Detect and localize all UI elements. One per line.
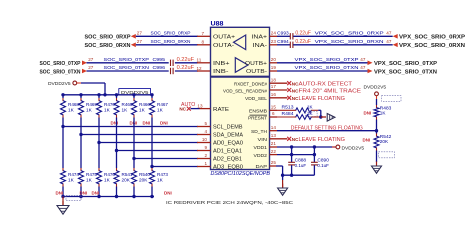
svg-text:0.22uF: 0.22uF — [295, 39, 311, 45]
port arrow VPX_SOC_SRIO_0TXP — [368, 61, 373, 66]
pin stub 25 DAP — [270, 160, 277, 166]
annotation LEAVE FLOATING (13) — [299, 137, 346, 143]
svg-text:VDD2: VDD2 — [254, 153, 268, 158]
svg-text:7: 7 — [202, 31, 205, 36]
wire VDD2 row — [277, 153, 316, 156]
wire AD1 to pin 9 — [117, 150, 199, 152]
svg-text:1K: 1K — [86, 177, 93, 182]
svg-text:1K: 1K — [68, 108, 75, 113]
pin number 47 (0RXN) — [386, 39, 392, 44]
svg-text:1K: 1K — [380, 110, 387, 115]
wire power to rail — [77, 83, 107, 97]
svg-text:DS80PCI102SQE/NOPB: DS80PCI102SQE/NOPB — [211, 171, 271, 177]
value 0.22uF (C994) — [295, 39, 311, 45]
amplifier A (left-pointing) — [234, 35, 246, 50]
wire AD0 to pin 10 — [99, 142, 198, 144]
svg-text:AUTO-RX DETECT: AUTO-RX DETECT — [299, 82, 353, 88]
svg-text:C993: C993 — [277, 30, 289, 36]
pin stub 21 — [270, 141, 278, 147]
svg-text:27: 27 — [88, 57, 94, 62]
wire R540 to gnd rail — [132, 187, 135, 199]
pin stub 18 — [270, 77, 288, 83]
annotation AUTO — [181, 102, 195, 108]
pin number 27 (0RXN) — [137, 39, 143, 44]
svg-text:8: 8 — [202, 40, 205, 45]
svg-text:OUTA+: OUTA+ — [213, 35, 236, 41]
svg-text:VIN: VIN — [258, 137, 268, 142]
svg-text:AD0_EQA0: AD0_EQA0 — [213, 141, 243, 147]
wire SOC_SRIO_0RXN — [136, 44, 198, 46]
wire R483 to R542 — [375, 120, 378, 134]
chip part number — [211, 171, 271, 177]
svg-text:VPX_SOC_SRIO_0TXP: VPX_SOC_SRIO_0TXP — [374, 61, 437, 67]
svg-text:LEAVE FLOATING: LEAVE FLOATING — [299, 96, 346, 102]
svg-text:VOD_SEL_READEN#: VOD_SEL_READEN# — [223, 88, 267, 93]
capacitor C888 — [288, 147, 306, 175]
wire C995 to pin 11 — [175, 62, 198, 64]
svg-text:1K: 1K — [86, 108, 93, 113]
svg-text:RATE: RATE — [213, 107, 230, 113]
svg-text:1K: 1K — [307, 111, 314, 116]
pin stub 20 — [270, 57, 278, 63]
wire SOC_SRIO_0TXP to C995 — [87, 62, 169, 64]
svg-text:C890: C890 — [317, 158, 329, 164]
svg-text:22: 22 — [271, 149, 277, 154]
svg-text:VPX_SOC_SRIO_0RXP: VPX_SOC_SRIO_0RXP — [315, 31, 384, 36]
port label VPX_SOC_SRIO_0TXP — [374, 61, 437, 67]
resistor R542 — [374, 134, 392, 151]
power DVDD2V5 (left) — [48, 81, 77, 87]
svg-text:6: 6 — [272, 111, 275, 116]
annotation AUTO-RX DETECT — [299, 82, 353, 88]
svg-text:0.1uF: 0.1uF — [295, 163, 307, 169]
pin number 27 (0TXP) — [88, 57, 94, 62]
svg-text:OUTB+: OUTB+ — [245, 61, 268, 67]
svg-text:0.22uF: 0.22uF — [295, 30, 311, 36]
svg-text:20K: 20K — [122, 177, 131, 182]
capacitor C890 — [311, 147, 329, 175]
port label VPX_SOC_SRIO_0RXP — [399, 35, 465, 41]
pin stub 19 — [270, 65, 278, 71]
port arrow SOC_SRIO_0TXN — [82, 69, 87, 74]
svg-text:DNI: DNI — [164, 191, 172, 196]
dni box (R483) — [382, 96, 402, 102]
svg-text:47: 47 — [360, 65, 366, 70]
svg-text:R484: R484 — [282, 111, 294, 116]
wire R513 to junction — [313, 110, 321, 117]
svg-text:SOC_SRIO_0TXN: SOC_SRIO_0TXN — [40, 69, 81, 75]
pin stub 5 — [197, 121, 211, 126]
svg-text:SDA_DEMA: SDA_DEMA — [213, 133, 244, 139]
no-connect pin 13 — [287, 137, 299, 142]
svg-text:0.1uF: 0.1uF — [317, 163, 329, 169]
svg-text:OUTA-: OUTA- — [213, 43, 234, 49]
net name SOC_SRIO_0RXN — [151, 39, 191, 44]
port label VPX_SOC_SRIO_0RXN — [399, 43, 465, 49]
svg-text:AD1_EQA1: AD1_EQA1 — [213, 149, 242, 155]
wire pin19 to port — [277, 70, 368, 72]
svg-text:1K: 1K — [307, 104, 314, 109]
capacitor C995 — [153, 57, 174, 66]
pin stub 7 — [197, 31, 211, 36]
resistor R474 — [61, 168, 80, 187]
svg-text:20: 20 — [271, 57, 277, 62]
svg-text:SOC_SRIO_0TXP: SOC_SRIO_0TXP — [104, 57, 150, 62]
pin stub 2 — [197, 153, 211, 158]
wire SD_TH to divider — [277, 130, 377, 132]
svg-text:SOC_SRIO_0RXP: SOC_SRIO_0RXP — [151, 31, 191, 36]
resistor R469 — [79, 93, 98, 117]
svg-text:C995: C995 — [153, 57, 166, 63]
svg-text:R466: R466 — [139, 102, 150, 107]
svg-text:1K: 1K — [122, 108, 129, 113]
pin stub 4 — [197, 129, 211, 134]
pin stub 13 — [270, 133, 288, 139]
svg-text:SOC_SRIO_0TXN: SOC_SRIO_0TXN — [104, 65, 150, 70]
svg-text:1K: 1K — [157, 108, 164, 113]
svg-text:VPX_SOC_SRIO_0RXN: VPX_SOC_SRIO_0RXN — [315, 39, 384, 44]
pin stub 12 — [197, 66, 211, 71]
no-connect RATE — [179, 107, 190, 112]
svg-text:0.22uF: 0.22uF — [177, 65, 195, 71]
svg-text:4: 4 — [204, 129, 207, 134]
annotation DEFAULT SETTING FLOATING — [291, 126, 363, 132]
port label SOC_SRIO_0TXP — [40, 61, 81, 67]
svg-text:15: 15 — [271, 105, 277, 110]
svg-text:20K: 20K — [139, 177, 148, 182]
annotation DNI (R542) — [363, 138, 371, 143]
svg-text:R467: R467 — [157, 102, 168, 107]
wire column AD1 vertical — [115, 118, 118, 169]
svg-text:VPX_SOC_SRIO_0RXN: VPX_SOC_SRIO_0RXN — [399, 43, 465, 49]
svg-text:1K: 1K — [104, 108, 111, 113]
svg-text:C888: C888 — [295, 158, 307, 164]
svg-text:19: 19 — [271, 65, 277, 70]
resistor R513 — [277, 104, 314, 112]
svg-text:VDD_SEL: VDD_SEL — [245, 96, 267, 101]
wire R475 to gnd rail — [79, 187, 82, 199]
svg-text:0.22uF: 0.22uF — [177, 57, 195, 63]
pin number 27 (0TXN) — [88, 65, 94, 70]
svg-text:SD_TH: SD_TH — [251, 129, 267, 134]
pin number 47 (0TXN) — [360, 65, 366, 70]
wire SOC_SRIO_0TXN to C996 — [87, 70, 169, 72]
svg-text:DNI: DNI — [364, 110, 372, 115]
wire SDA to pin 4 — [81, 134, 198, 136]
svg-text:RXDET_DONE#: RXDET_DONE# — [234, 81, 267, 86]
chip right pin names — [223, 35, 268, 169]
port arrow VPX_SOC_SRIO_0RXN — [393, 43, 398, 48]
svg-text:AD3_EQB0: AD3_EQB0 — [213, 164, 243, 170]
annotation DNI row (pulldowns) — [56, 191, 172, 201]
svg-text:25: 25 — [271, 160, 277, 165]
pin stub 8 — [197, 40, 211, 45]
svg-text:SOC_SRIO_0TXP: SOC_SRIO_0TXP — [40, 61, 81, 67]
resistor R465 — [114, 93, 133, 117]
svg-text:27: 27 — [137, 39, 143, 44]
svg-text:U88: U88 — [211, 21, 225, 27]
svg-text:14: 14 — [271, 125, 277, 130]
svg-text:11: 11 — [197, 58, 202, 63]
svg-text:DNI: DNI — [363, 138, 371, 143]
resistor R473 — [150, 168, 169, 187]
svg-text:10: 10 — [202, 137, 208, 142]
svg-text:SOC_SRIO_0RXN: SOC_SRIO_0RXN — [151, 39, 191, 44]
svg-text:24: 24 — [271, 30, 277, 35]
power DVDD2V5 (divider) — [364, 85, 387, 96]
wire R474 to gnd rail — [61, 187, 64, 199]
resistor R484 — [277, 111, 317, 119]
net name SOC_SRIO_0TXN — [104, 65, 150, 70]
value 0.22uF (C996) — [177, 65, 195, 71]
resistor R470 — [97, 93, 116, 117]
net name VPX_SOC_SRIO_0TXP — [295, 57, 359, 62]
port arrow SOC_SRIO_0RXP — [131, 34, 136, 39]
svg-text:13: 13 — [197, 103, 203, 108]
net box DVDD2V5 — [119, 89, 151, 95]
svg-text:DVDD2V5: DVDD2V5 — [342, 145, 365, 151]
svg-text:DVDD2V5: DVDD2V5 — [364, 85, 387, 91]
ground (VDD decoupling) — [278, 180, 288, 195]
annotation DNI (R483) — [364, 110, 372, 115]
wire pin24 to C993 — [277, 35, 290, 37]
no-connect pin 18 — [287, 81, 299, 86]
port label SOC_SRIO_0TXN — [40, 69, 81, 75]
svg-text:ENSMB: ENSMB — [249, 108, 267, 113]
wire AD3 to pin 1 — [152, 166, 198, 168]
svg-text:SCL_DEMB: SCL_DEMB — [213, 125, 243, 131]
svg-text:IC REDRIVER PCIE 2CH 24WQFN, -: IC REDRIVER PCIE 2CH 24WQFN, -40C~85C — [166, 200, 294, 206]
wire VDD rail — [277, 145, 336, 148]
net name VPX_SOC_SRIO_0TXN — [295, 65, 359, 70]
ground (pulldown bank) — [57, 197, 69, 215]
resistor R483 — [374, 105, 392, 120]
wire column AD2 vertical — [132, 118, 135, 169]
resistor R540 — [132, 168, 151, 187]
svg-text:PRESNT: PRESNT — [248, 115, 267, 120]
svg-text:R513: R513 — [282, 104, 294, 109]
svg-text:13: 13 — [271, 133, 277, 138]
pin stub 15 — [270, 105, 278, 111]
svg-text:1K: 1K — [157, 177, 164, 182]
svg-text:9: 9 — [204, 145, 207, 150]
svg-text:DNI: DNI — [143, 120, 151, 125]
wire column AD0 vertical — [97, 118, 100, 169]
amplifier B (right-pointing) — [235, 58, 248, 73]
pin stub 16 — [270, 92, 288, 98]
svg-text:VPX_SOC_SRIO_0RXP: VPX_SOC_SRIO_0RXP — [399, 35, 465, 41]
wire pullup rail — [63, 94, 152, 96]
svg-text:47: 47 — [360, 57, 366, 62]
wire C993 to port — [293, 35, 393, 37]
svg-text:FR4 20" 4MIL TRACE: FR4 20" 4MIL TRACE — [299, 88, 362, 94]
svg-text:NC: NC — [179, 107, 186, 112]
svg-text:DNI: DNI — [80, 191, 88, 196]
svg-text:DNI: DNI — [160, 120, 168, 125]
svg-text:VDD1: VDD1 — [254, 145, 268, 150]
svg-text:47: 47 — [386, 30, 392, 35]
resistor R468 — [61, 93, 80, 117]
svg-text:INB-: INB- — [213, 69, 229, 75]
svg-text:5: 5 — [204, 121, 207, 126]
no-connect pin 16 — [287, 96, 299, 101]
svg-text:SOC_SRIO_0RXN: SOC_SRIO_0RXN — [85, 43, 131, 49]
net name VPX_SOC_SRIO_0RXN — [315, 39, 384, 44]
svg-text:1K: 1K — [68, 177, 75, 182]
pin stub 22 — [270, 149, 278, 155]
ground (ENSMB/PRESNT) — [327, 114, 335, 122]
net name SOC_SRIO_0RXP — [151, 31, 191, 36]
port arrow VPX_SOC_SRIO_0RXP — [393, 34, 398, 39]
svg-text:AD2_EQB1: AD2_EQB1 — [213, 157, 242, 163]
chip section divider — [211, 76, 270, 78]
value 0.22uF (C995) — [177, 57, 195, 63]
no-connect pin 17 — [287, 88, 299, 93]
pin stub 23 — [270, 39, 278, 45]
svg-text:INA+: INA+ — [252, 35, 268, 41]
svg-text:OUTB-: OUTB- — [246, 69, 267, 75]
wire column SDA vertical — [79, 118, 82, 169]
port label SOC_SRIO_0RXN — [85, 43, 131, 49]
svg-text:20K: 20K — [380, 139, 389, 144]
svg-text:VPX_SOC_SRIO_0TXP: VPX_SOC_SRIO_0TXP — [295, 57, 359, 62]
svg-text:INB+: INB+ — [213, 61, 230, 67]
svg-text:LEAVE FLOATING: LEAVE FLOATING — [299, 137, 346, 143]
svg-text:C994: C994 — [277, 39, 289, 45]
svg-text:1: 1 — [204, 161, 207, 166]
svg-text:VPX_SOC_SRIO_0TXN: VPX_SOC_SRIO_0TXN — [374, 69, 437, 75]
svg-text:INA-: INA- — [253, 43, 268, 49]
net name VPX_SOC_SRIO_0RXP — [315, 31, 384, 36]
power DVDD2V5 (VDD rail) — [332, 145, 364, 151]
svg-text:27: 27 — [137, 30, 143, 35]
svg-text:18: 18 — [271, 77, 277, 82]
annotation DNI row (pullups) — [111, 120, 168, 125]
capacitor C996 — [153, 65, 174, 74]
net name SOC_SRIO_0TXP — [104, 57, 150, 62]
svg-text:27: 27 — [88, 65, 94, 70]
svg-text:DEFAULT SETTING FLOATING: DEFAULT SETTING FLOATING — [291, 126, 363, 132]
svg-text:1K: 1K — [139, 108, 146, 113]
pin number 27 (0RXP) — [137, 30, 143, 35]
port arrow VPX_SOC_SRIO_0TXN — [368, 69, 373, 74]
wire column AD3 vertical — [150, 118, 153, 169]
svg-text:DNI: DNI — [92, 191, 100, 196]
svg-text:DAP: DAP — [256, 164, 268, 169]
resistor R466 — [132, 93, 151, 117]
svg-text:R469: R469 — [86, 102, 97, 107]
pin stub 14 — [270, 125, 278, 131]
pin stub 17 — [270, 84, 288, 90]
pin number 47 (0TXP) — [360, 57, 366, 62]
chip left pin names — [213, 35, 244, 171]
ground (divider) — [372, 162, 382, 174]
wire SCL to pin 5 — [63, 126, 198, 128]
svg-text:1K: 1K — [104, 177, 111, 182]
resistor R467 — [150, 93, 169, 117]
pin stub 1 — [197, 161, 211, 166]
svg-text:21: 21 — [271, 141, 277, 146]
wire C994 to port — [293, 44, 393, 46]
dni box (R542) — [379, 152, 395, 158]
wire R476 to gnd rail — [97, 187, 100, 199]
svg-text:R468: R468 — [68, 102, 79, 107]
wire ground rail — [63, 196, 154, 198]
svg-text:2: 2 — [204, 153, 207, 158]
wire C996 to pin 12 — [175, 70, 198, 72]
svg-text:DVDD2V5: DVDD2V5 — [48, 81, 71, 87]
pin stub 9 — [197, 145, 211, 150]
annotation FR4 trace — [299, 88, 362, 94]
description text — [166, 200, 294, 206]
wire pin20 to port — [277, 62, 368, 64]
svg-text:12: 12 — [197, 66, 203, 71]
wire R542 down — [376, 151, 378, 163]
svg-text:VPX_SOC_SRIO_0TXN: VPX_SOC_SRIO_0TXN — [295, 65, 359, 70]
redriver U88 body — [211, 21, 270, 169]
pin stub 13 RATE — [197, 103, 210, 108]
pin stub 24 — [270, 30, 278, 36]
resistor R541 — [114, 168, 133, 187]
resistor R475 — [79, 168, 98, 187]
wire R473 to gnd rail — [150, 187, 153, 199]
svg-text:16: 16 — [271, 92, 277, 97]
pin stub 6 — [270, 111, 278, 117]
port label VPX_SOC_SRIO_0TXN — [374, 69, 437, 75]
svg-text:23: 23 — [271, 39, 277, 44]
port arrow SOC_SRIO_0RXN — [131, 43, 136, 48]
wire R541 to gnd rail — [115, 187, 118, 199]
wire RATE stub — [191, 108, 200, 110]
wire column SCL vertical — [61, 118, 64, 169]
port label SOC_SRIO_0RXP — [85, 35, 131, 41]
svg-text:DNI: DNI — [56, 191, 64, 196]
wire DAP down — [276, 166, 284, 180]
wire cap ground rail — [283, 174, 315, 177]
svg-text:47: 47 — [386, 39, 392, 44]
svg-text:17: 17 — [271, 84, 277, 89]
pin stub 11 — [197, 58, 211, 63]
value 0.22uF (C993) — [295, 30, 311, 36]
PRESNT overline — [250, 114, 268, 116]
wire power to R483 — [376, 96, 378, 105]
capacitor C994 — [277, 39, 293, 48]
resistor R476 — [97, 168, 116, 187]
wire SOC_SRIO_0RXP — [136, 35, 198, 37]
port arrow SOC_SRIO_0TXP — [82, 61, 87, 66]
svg-text:SOC_SRIO_0RXP: SOC_SRIO_0RXP — [85, 35, 131, 41]
svg-text:C996: C996 — [153, 65, 166, 71]
wire AD2 to pin 2 — [134, 158, 198, 160]
pin stub 10 — [197, 137, 211, 142]
capacitor C993 — [277, 30, 293, 39]
pin number 47 (0RXP) — [386, 30, 392, 35]
annotation LEAVE FLOATING (16) — [299, 96, 346, 102]
wire pin23 to C994 — [277, 44, 290, 46]
wire R484 to ground — [313, 115, 327, 118]
